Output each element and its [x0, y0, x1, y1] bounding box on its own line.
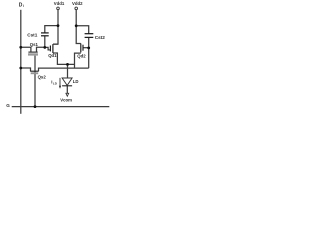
- svg-text:Cst2: Cst2: [95, 35, 106, 40]
- svg-text:i: i: [23, 4, 24, 8]
- svg-text:Cst1: Cst1: [27, 32, 38, 37]
- svg-text:Qs2: Qs2: [38, 75, 47, 80]
- svg-text:Vdd2: Vdd2: [72, 1, 83, 6]
- svg-text:Qs1: Qs1: [30, 42, 39, 47]
- svg-text:G: G: [6, 103, 10, 108]
- svg-text:Vdd1: Vdd1: [54, 1, 65, 6]
- svg-text:LD: LD: [73, 79, 79, 84]
- svg-text:Qd2: Qd2: [77, 53, 86, 58]
- svg-text:Vcom: Vcom: [60, 97, 72, 102]
- svg-text:D: D: [19, 2, 23, 8]
- svg-text:Qd1: Qd1: [48, 53, 57, 58]
